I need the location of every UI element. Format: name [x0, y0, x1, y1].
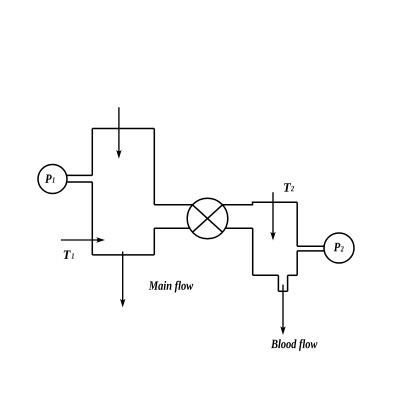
wire P1 stub bottom	[66, 181, 92, 183]
wire P2 stub top	[297, 245, 324, 247]
wire outlet notch bottom	[278, 290, 287, 292]
wire P2 stub bottom	[297, 250, 324, 252]
label P1	[45, 175, 52, 183]
wire left-box left wall upper	[91, 129, 93, 176]
pump P1 circle	[38, 165, 67, 194]
label Main flow	[149, 281, 194, 293]
wire outlet notch left wall	[277, 275, 279, 291]
pump P2 circle	[324, 233, 354, 263]
label P2	[334, 243, 341, 251]
arrow inlet top	[118, 107, 120, 154]
wire channel bottom wall left	[154, 227, 190, 229]
valve V1 X diagonal 2	[193, 205, 223, 232]
wire left-box left wall lower	[91, 182, 93, 255]
wire outlet notch right wall	[287, 275, 289, 291]
wire left-box lower-right vertical	[153, 228, 155, 255]
wire right-box bottom left part	[253, 274, 279, 276]
label T2	[284, 183, 291, 191]
label T1	[64, 251, 71, 259]
arrow main outlet	[122, 252, 124, 304]
arrow blood outlet	[282, 285, 284, 331]
wire left-box bottom edge	[92, 254, 154, 256]
arrow T2	[272, 192, 274, 236]
arrow T1	[61, 239, 101, 241]
valve V1 X diagonal 1	[193, 205, 223, 232]
wire channel top wall left	[154, 204, 192, 206]
wire right-box left wall	[252, 228, 254, 275]
wire left-box top edge	[92, 128, 154, 130]
wire right-box right wall lower	[296, 251, 298, 275]
valve V1 circle	[187, 198, 228, 239]
wire P1 stub top	[66, 174, 92, 176]
label Blood flow	[271, 339, 317, 351]
wire channel bottom wall right	[225, 227, 253, 229]
wire channel top wall right	[223, 202, 298, 205]
wire right-box right wall upper	[296, 202, 298, 246]
wire right-box bottom right part	[288, 274, 298, 276]
wire left-box right wall	[153, 129, 155, 205]
